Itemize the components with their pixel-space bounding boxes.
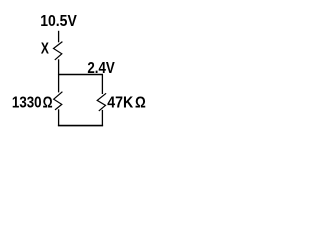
- wire right branch lead: [101, 74, 103, 94]
- resistor R1 1330 ohm: [54, 92, 63, 110]
- svg-text:10.5V: 10.5V: [40, 13, 77, 30]
- wire right bottom lead: [101, 110, 103, 126]
- wire left middle lead: [58, 59, 60, 75]
- svg-text:47K: 47K: [107, 95, 134, 112]
- wire left bottom lead: [58, 109, 60, 126]
- resistor X: [54, 42, 63, 60]
- wire left branch lead: [58, 74, 60, 92]
- wire bottom: [58, 125, 103, 127]
- svg-text:Ω: Ω: [43, 95, 53, 112]
- svg-text:X: X: [41, 41, 49, 58]
- wire top lead: [58, 31, 60, 43]
- wire junction horizontal: [58, 74, 103, 76]
- svg-text:1330: 1330: [12, 95, 42, 112]
- resistor R2 47K ohm: [97, 93, 106, 111]
- svg-text:Ω: Ω: [135, 95, 146, 112]
